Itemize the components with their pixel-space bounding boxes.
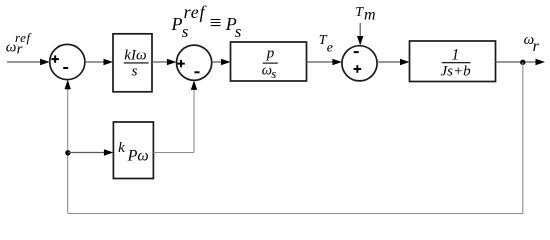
wire S2 to block p/ws [212, 61, 222, 63]
node junction dot at output [520, 60, 525, 65]
S1 plus sign [51, 55, 59, 62]
wire block kPw output to S2 bottom [153, 152, 194, 154]
wire S1 to block kIw/s [85, 61, 105, 63]
S2 plus sign [177, 60, 185, 67]
svg-text:m: m [364, 6, 376, 23]
wire node to block kPw [68, 152, 105, 154]
svg-text:k: k [118, 140, 125, 156]
summing junction S1 [50, 44, 85, 79]
wire feedback: down from output node [522, 62, 524, 213]
svg-text:ref: ref [15, 30, 33, 45]
node label omega_r output [524, 32, 540, 55]
block kPw [113, 122, 153, 179]
node omega_r ref input label [6, 30, 33, 57]
wire block kIw/s to summing junction S2 [152, 61, 168, 63]
svg-text:Pω: Pω [127, 147, 149, 164]
svg-text:P: P [171, 14, 183, 34]
wire block 1/(Js+b) to output [496, 61, 537, 63]
S1 minus sign [63, 67, 68, 69]
S3 plus sign [354, 65, 362, 73]
wire Tm input arrow down into S3 [359, 23, 361, 38]
svg-text:s: s [235, 22, 242, 41]
svg-text:ref: ref [184, 2, 208, 22]
svg-text:s: s [132, 64, 138, 80]
block integrator kIw/s [113, 34, 152, 92]
block p/ws [231, 42, 307, 81]
wire S3 to block 1/(Js+b) [377, 61, 401, 63]
node label Ps_ref = Ps [171, 2, 242, 41]
wire feedback: bottom horizontal [68, 213, 523, 215]
svg-text:s: s [182, 22, 189, 41]
wire block p/ws to summing junction S3, node Te [307, 61, 334, 63]
svg-text:p: p [266, 46, 275, 62]
output arrowhead [536, 59, 546, 65]
svg-text:e: e [327, 41, 333, 56]
S2 minus sign [195, 71, 200, 73]
node junction dot on feedback line [65, 150, 70, 155]
svg-text:r: r [533, 38, 540, 55]
node label Tm [355, 5, 375, 23]
summing junction S3 [342, 46, 377, 81]
wire input to summing junction S1 [7, 61, 42, 63]
svg-text:≡: ≡ [210, 11, 222, 35]
S3 minus sign [354, 51, 359, 53]
summing junction S2 [177, 45, 212, 80]
block 1/(Js+b) [410, 41, 496, 82]
svg-text:kIω: kIω [124, 47, 146, 63]
node label Te [319, 33, 333, 55]
wire feedback: up left side into S1 [67, 88, 69, 214]
svg-text:s: s [271, 66, 276, 81]
svg-text:Js+b: Js+b [441, 63, 472, 79]
svg-text:T: T [355, 5, 364, 20]
svg-text:1: 1 [452, 46, 460, 63]
